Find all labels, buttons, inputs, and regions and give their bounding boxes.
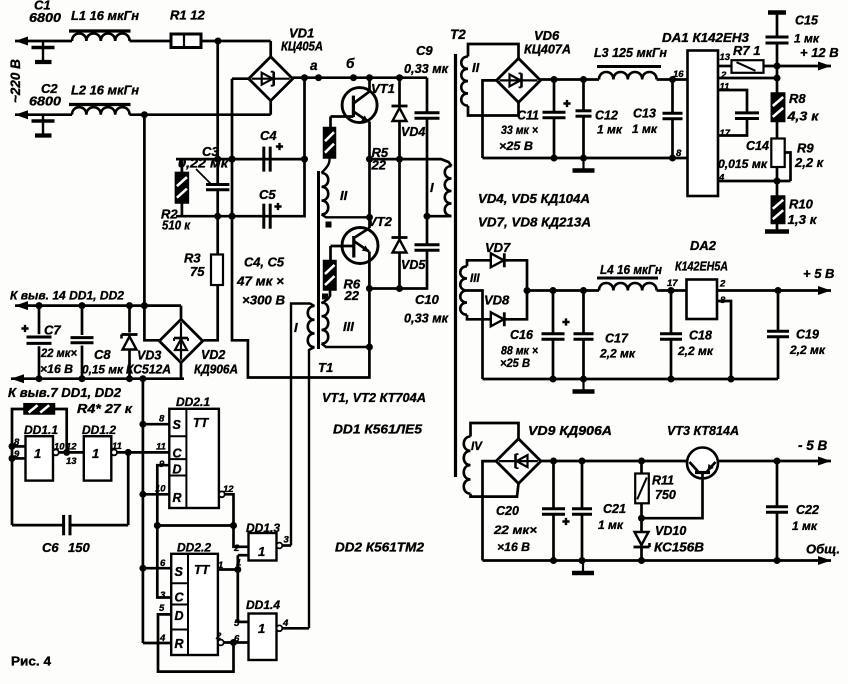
wire to VD1 top vertex xyxy=(269,41,272,57)
svg-text:12: 12 xyxy=(223,484,234,495)
svg-text:1 мк: 1 мк xyxy=(792,519,818,533)
wire rail K vyv.7 DD1 DD2 xyxy=(11,377,184,380)
svg-text:VD4: VD4 xyxy=(401,125,425,139)
wire T1 winding II bottom to VT trunk xyxy=(322,214,370,217)
svg-text:2,2 мк: 2,2 мк xyxy=(599,347,636,361)
wire L2 to VD1 bottom xyxy=(130,113,271,116)
junction C4 right xyxy=(301,156,308,163)
capacitor C9 0.33uF xyxy=(426,78,429,112)
T1 winding II xyxy=(322,173,329,214)
svg-text:VT1, VT2 КТ704А: VT1, VT2 КТ704А xyxy=(322,390,426,405)
node a xyxy=(315,74,322,81)
wire DD2.2 R pin4 xyxy=(143,642,171,645)
wire DD1.1 input pin9 xyxy=(12,457,26,460)
svg-text:22 мк×: 22 мк× xyxy=(40,346,77,360)
mains input arrow bottom ~220V line 2 xyxy=(15,110,28,119)
svg-text:VD3: VD3 xyxy=(137,349,161,363)
svg-text:C16: C16 xyxy=(510,328,534,342)
svg-text:33 мк ×: 33 мк × xyxy=(501,123,538,137)
capacitor C20 22uF electrolytic xyxy=(552,461,555,508)
junction VD4 VD5 xyxy=(396,156,403,163)
wire C9 bottom through rail crossing xyxy=(426,119,429,216)
wire DD1.2 out to DD2.1 C xyxy=(117,451,169,454)
svg-text:8: 8 xyxy=(676,148,682,159)
svg-text:1: 1 xyxy=(92,446,99,461)
svg-text:0,15 мк: 0,15 мк xyxy=(82,363,124,377)
wire -5V raw line xyxy=(541,460,688,463)
svg-text:17: 17 xyxy=(720,128,731,139)
ground chassis below C12 xyxy=(582,158,584,169)
diode VD8 КД213А xyxy=(491,312,504,326)
svg-text:2,2 мк: 2,2 мк xyxy=(677,344,714,358)
svg-text:- 5 В: - 5 В xyxy=(798,438,828,453)
svg-text:C7: C7 xyxy=(44,323,61,338)
supply rail arrow K vyv.14 xyxy=(15,301,28,310)
svg-text:22 мк×: 22 мк× xyxy=(493,523,537,537)
svg-text:5: 5 xyxy=(234,618,240,629)
svg-text:3: 3 xyxy=(160,590,166,601)
svg-text:0,015 мк: 0,015 мк xyxy=(718,157,768,171)
svg-text:КЦ405А: КЦ405А xyxy=(281,39,323,54)
wire VT1 emitter xyxy=(353,112,368,122)
svg-text:D: D xyxy=(175,609,184,623)
wire base to R5 xyxy=(329,117,332,128)
wire DD2.2 out pin1 xyxy=(218,568,238,571)
svg-text:C13: C13 xyxy=(633,107,656,121)
wire T1 winding I bottom to DD1.4 output xyxy=(309,347,315,628)
junction VT2 emitter bus xyxy=(366,344,373,351)
wire VD8 to plus node xyxy=(505,291,527,320)
voltage regulator DA2 К142ЕН5А xyxy=(687,280,718,320)
capacitor C7 22uF electrolytic xyxy=(38,306,41,379)
svg-text:R9: R9 xyxy=(797,141,814,156)
svg-text:2,2 мк: 2,2 мк xyxy=(789,343,826,357)
T2 winding I xyxy=(445,166,452,216)
transistor VT3 КТ814А xyxy=(687,448,718,479)
svg-text:C: C xyxy=(175,591,185,605)
svg-text:VT2: VT2 xyxy=(368,214,393,229)
svg-text:C22: C22 xyxy=(796,503,819,517)
svg-text:10: 10 xyxy=(54,442,65,453)
wire +12V line xyxy=(764,65,832,68)
wire +5 raw line xyxy=(527,289,599,292)
svg-text:C9: C9 xyxy=(416,43,433,58)
capacitor C18 2.2uF xyxy=(670,291,673,333)
capacitor C16 88uF electrolytic xyxy=(552,291,555,333)
capacitor C4 47uF xyxy=(262,147,265,172)
svg-text:S: S xyxy=(175,565,184,579)
wire DD2.2 S pin6 xyxy=(143,567,171,570)
svg-text:DD2.1: DD2.1 xyxy=(176,395,210,409)
wire T1 winding I top to DD1.3 output xyxy=(291,304,315,546)
svg-text:КД906А: КД906А xyxy=(194,363,238,377)
inductor L2 xyxy=(72,107,130,115)
zener VD3 КС512А xyxy=(128,306,131,333)
wire VT2 base xyxy=(331,245,354,248)
wire DD2.2 D pin5 feedback xyxy=(158,614,234,671)
svg-text:8: 8 xyxy=(14,437,20,448)
wire R4 right to DD1.1 output node xyxy=(55,409,67,452)
wire VT2 emitter down xyxy=(368,252,371,348)
svg-text:L2 16 мкГн: L2 16 мкГн xyxy=(71,83,139,98)
svg-text:1: 1 xyxy=(34,446,41,461)
wire DD2.1 D pin9 xyxy=(157,465,171,597)
svg-text:C5: C5 xyxy=(259,187,276,202)
svg-text:2: 2 xyxy=(719,279,726,290)
ground chassis below C21 xyxy=(582,561,584,572)
-5V output arrow xyxy=(818,457,831,466)
wire T2 winding III bottom to VD8 xyxy=(467,315,491,320)
wire R4 left to DD1.1 inputs and C6 xyxy=(12,409,24,525)
svg-text:III: III xyxy=(343,319,354,334)
svg-text:VT3 КТ814А: VT3 КТ814А xyxy=(667,423,739,438)
transformer T1 core xyxy=(317,171,320,349)
svg-text:R7 1: R7 1 xyxy=(733,43,760,58)
common output arrow xyxy=(818,556,831,565)
wire mid rail to T2 winding I top xyxy=(370,159,452,166)
svg-text:3: 3 xyxy=(284,535,290,546)
resistor R4 27k adjustable xyxy=(24,404,55,414)
svg-text:C15: C15 xyxy=(795,14,819,28)
svg-text:6800: 6800 xyxy=(29,10,62,25)
svg-text:×300 В: ×300 В xyxy=(242,293,285,308)
svg-text:47 мк ×: 47 мк × xyxy=(236,274,284,289)
svg-text:1: 1 xyxy=(236,558,241,569)
junction half-bridge mid rail xyxy=(366,156,373,163)
capacitor C22 1uF xyxy=(776,461,779,506)
svg-text:КС156В: КС156В xyxy=(654,541,704,555)
wire VT2 emitter diag xyxy=(354,241,369,252)
svg-text:VD9 КД906А: VD9 КД906А xyxy=(528,423,612,438)
diode VD4 КД104А xyxy=(398,78,401,106)
ground chassis below C17 xyxy=(582,379,584,390)
junction R11 VD10 VT3 base xyxy=(638,515,645,522)
svg-text:DD1.3: DD1.3 xyxy=(246,521,280,535)
transistor VT2 КТ704А xyxy=(342,228,378,264)
svg-text:1 мк: 1 мк xyxy=(794,32,820,46)
svg-text:TT: TT xyxy=(194,563,211,577)
svg-text:×25 В: ×25 В xyxy=(499,139,533,153)
resistor R7 1 xyxy=(718,65,732,68)
svg-text:К выв.7 DD1, DD2: К выв.7 DD1, DD2 xyxy=(8,386,121,400)
junction minus bus rail A xyxy=(229,156,236,163)
junction minus bus rail B xyxy=(229,213,236,220)
svg-text:22: 22 xyxy=(344,288,360,303)
node junction after R1 xyxy=(215,38,222,45)
svg-text:8: 8 xyxy=(159,414,165,425)
svg-text:C6: C6 xyxy=(42,540,59,555)
resistor R6 22 xyxy=(324,261,337,291)
resistor R10 1.3k xyxy=(771,196,784,224)
wire R1 to VD1 top xyxy=(201,40,271,43)
T2 winding II xyxy=(461,57,468,106)
+12V output arrow xyxy=(818,62,831,71)
svg-text:150: 150 xyxy=(68,540,90,555)
svg-text:~220 В: ~220 В xyxy=(8,59,23,103)
resistor R3 75 xyxy=(211,255,223,286)
svg-text:13: 13 xyxy=(720,52,731,63)
resistor R5 22 xyxy=(324,128,336,159)
capacitor C8 0.15uF xyxy=(81,306,84,379)
wire VT2 collector diag xyxy=(354,228,370,238)
svg-text:II: II xyxy=(340,188,348,203)
wire VT1 emitter to rail xyxy=(368,122,371,160)
svg-text:2,2 к: 2,2 к xyxy=(794,155,825,170)
bridge rectifier VD1 КЦ405А xyxy=(249,57,293,101)
wire trunk VT1e-VT2c xyxy=(368,159,371,228)
svg-text:0,22 мк: 0,22 мк xyxy=(178,156,230,171)
svg-text:VD7, VD8 КД213А: VD7, VD8 КД213А xyxy=(478,215,591,230)
svg-text:VT1: VT1 xyxy=(371,81,395,96)
svg-text:DD2.2: DD2.2 xyxy=(177,541,211,555)
svg-text:Общ.: Общ. xyxy=(806,542,840,557)
svg-text:DA2: DA2 xyxy=(690,238,717,253)
wire minus rail to DA1 pin8 xyxy=(483,157,688,160)
capacitor C17 2.2uF xyxy=(582,291,585,333)
svg-text:DD1.2: DD1.2 xyxy=(82,423,116,437)
flip-flop DD2.1 xyxy=(169,409,219,508)
voltage regulator DA1 К142ЕН3 xyxy=(688,51,719,197)
junction VD5 C10 rail xyxy=(366,285,373,292)
capacitor C11 33uF electrolytic xyxy=(553,80,556,112)
svg-text:0,33 мк: 0,33 мк xyxy=(404,62,449,76)
wire DD2.1 out pin12 xyxy=(219,491,225,497)
transistor VT1 КТ704А xyxy=(342,88,377,123)
svg-text:S: S xyxy=(173,418,182,432)
wire rail B xyxy=(176,215,304,218)
svg-text:2: 2 xyxy=(233,543,240,554)
wire mains line 1 xyxy=(15,40,72,43)
+5V output arrow xyxy=(818,286,831,295)
svg-text:12: 12 xyxy=(66,442,77,453)
svg-text:1 мк: 1 мк xyxy=(632,122,658,136)
svg-text:C17: C17 xyxy=(605,332,629,346)
wire T2 winding I bottom xyxy=(427,215,452,218)
T2 winding IV xyxy=(464,437,471,494)
junction neutral rail1 xyxy=(141,302,148,309)
svg-text:L1 16 мкГн: L1 16 мкГн xyxy=(71,8,139,23)
wire VD9 left vertex to 0V rail bottom xyxy=(483,461,497,560)
wire node b line VD1 plus output xyxy=(292,76,427,79)
wire DD1.1 input pin8 xyxy=(12,445,26,448)
svg-text:6800: 6800 xyxy=(29,94,62,109)
resistor R1 xyxy=(171,34,201,48)
svg-text:6: 6 xyxy=(160,558,166,569)
svg-text:1: 1 xyxy=(258,544,265,559)
svg-text:VD10: VD10 xyxy=(655,524,686,538)
wire VD1 left vertex xyxy=(232,77,249,80)
node b xyxy=(350,74,357,81)
wire L1 to R1 xyxy=(130,40,172,43)
wire T2 winding IV bottom to VD9 xyxy=(471,484,519,497)
svg-text:VD4, VD5 КД104А: VD4, VD5 КД104А xyxy=(478,191,590,206)
wire rail A xyxy=(176,158,305,161)
resistor R2 510k xyxy=(175,172,188,203)
junction VD7 VD8 output xyxy=(524,287,531,294)
wire VD7 to plus node xyxy=(505,260,527,290)
wire VD6 plus output xyxy=(541,78,600,81)
wire DD2.2 out pin2 xyxy=(218,640,224,646)
diode VD5 КД104А xyxy=(398,159,401,237)
transformer T2 core xyxy=(454,54,457,477)
capacitor C6 150 xyxy=(12,524,64,527)
svg-text:C: C xyxy=(173,447,183,461)
wire T1 winding III bottom xyxy=(322,344,370,347)
wire T2 winding III center tap to 0V rail xyxy=(467,291,483,380)
junction rail A C3 xyxy=(214,156,221,163)
svg-text:9: 9 xyxy=(14,449,20,460)
wire rail K vyv.14 DD1 DD2 xyxy=(15,304,181,307)
svg-text:4: 4 xyxy=(159,633,166,644)
svg-text:1 мк: 1 мк xyxy=(598,518,624,532)
wire feedback to C6 xyxy=(127,452,130,525)
flip-flop DD2.2 xyxy=(171,554,218,655)
svg-text:L4 16 мкГн: L4 16 мкГн xyxy=(600,262,662,277)
wire VD6 left vertex to minus rail xyxy=(483,80,497,158)
svg-text:C8: C8 xyxy=(94,347,111,362)
junction C4C5 tap xyxy=(301,74,308,81)
junction C9 C10 T2 winding I bottom xyxy=(424,213,431,220)
svg-text:D: D xyxy=(173,463,182,477)
wire C14 to DA1 pin17 xyxy=(718,120,747,136)
wire VT1 base xyxy=(331,115,354,118)
svg-text:a: a xyxy=(310,58,318,73)
svg-text:R11: R11 xyxy=(652,474,674,488)
wire DA1 pin11 to C14 xyxy=(718,90,747,112)
wire minus bus staircase xyxy=(232,79,369,378)
wire DD2.1 S pin8 xyxy=(143,423,169,426)
svg-text:II: II xyxy=(472,60,480,75)
wire DA1 pin4 xyxy=(718,180,791,183)
junction T1 winding II bottom xyxy=(366,214,373,221)
svg-text:17: 17 xyxy=(667,278,678,289)
svg-text:I: I xyxy=(430,180,434,195)
wire 0V rail middle xyxy=(483,378,779,381)
svg-text:T2: T2 xyxy=(450,27,466,42)
svg-text:C11: C11 xyxy=(517,109,539,123)
svg-text:×16 В: ×16 В xyxy=(497,540,530,554)
capacitor C3 0.22uF xyxy=(216,159,219,184)
wire DD1.4 output xyxy=(282,627,309,630)
wire R3 to VD2 right vertex xyxy=(204,285,218,340)
svg-text:L3 125 мкГн: L3 125 мкГн xyxy=(594,45,667,60)
svg-text:1,3 к: 1,3 к xyxy=(788,212,818,227)
svg-text:16: 16 xyxy=(673,69,684,80)
svg-text:VD7: VD7 xyxy=(485,240,511,255)
svg-text:C19: C19 xyxy=(796,328,819,342)
svg-text:T1: T1 xyxy=(318,360,333,375)
svg-text:4,3 к: 4,3 к xyxy=(786,109,820,124)
capacitor C2 feedthrough xyxy=(42,115,44,134)
common drop to DD S R pins xyxy=(142,379,145,643)
wire 0V common rail bottom xyxy=(483,559,832,562)
svg-text:+ 12 В: + 12 В xyxy=(800,45,839,60)
wire VT1 collector xyxy=(353,78,369,104)
wire +5V output xyxy=(717,289,831,292)
svg-text:C18: C18 xyxy=(689,329,712,343)
svg-text:DD1.1: DD1.1 xyxy=(24,423,58,437)
svg-text:C10: C10 xyxy=(415,292,440,307)
svg-text:R: R xyxy=(173,491,182,505)
svg-text:R: R xyxy=(175,637,184,651)
bridge rectifier VD2 КД906А xyxy=(159,319,202,362)
capacitor C15 1uF xyxy=(768,10,786,15)
svg-text:VD8: VD8 xyxy=(484,293,510,308)
wire to R8 xyxy=(776,66,779,93)
svg-text:C4, C5: C4, C5 xyxy=(244,255,285,270)
svg-text:DD2 К561ТМ2: DD2 К561ТМ2 xyxy=(335,540,425,555)
wire DD1.3 output xyxy=(282,544,291,547)
wire DA1 pin2 xyxy=(718,77,777,80)
svg-text:1: 1 xyxy=(218,560,223,571)
bridge rectifier VD6 КЦ407А xyxy=(497,58,541,102)
svg-text:К выв. 14 DD1, DD2: К выв. 14 DD1, DD2 xyxy=(10,289,124,303)
inductor L4 16uH xyxy=(599,283,657,291)
wire DA2 pin8 to 0V rail xyxy=(717,301,731,379)
logic gate DD1.1 xyxy=(26,436,54,480)
logic gate DD1.4 xyxy=(249,614,277,661)
wire VD1 bottom vertex to mains line 2 xyxy=(269,100,272,114)
svg-text:510 к: 510 к xyxy=(162,218,191,233)
wire VD2 bottom vertex to rail2 xyxy=(180,363,183,379)
svg-text:C20: C20 xyxy=(496,504,519,518)
wire -5V output line xyxy=(717,460,831,463)
capacitor C19 2.2uF xyxy=(777,291,780,331)
capacitor C1 feedthrough xyxy=(42,41,44,60)
capacitor C21 1uF xyxy=(581,461,584,508)
svg-text:IV: IV xyxy=(471,441,483,453)
inductor L1 xyxy=(72,34,130,42)
logic gate DD1.2 xyxy=(84,436,112,480)
svg-text:11: 11 xyxy=(112,441,122,452)
svg-text:I: I xyxy=(294,320,298,335)
junction mains line2 to neutral drop xyxy=(141,111,148,118)
wire T2 winding II top to VD6 xyxy=(468,44,519,58)
svg-text:VD2: VD2 xyxy=(201,348,225,362)
svg-text:11: 11 xyxy=(156,442,166,453)
wire L3 to DA1 pin16 xyxy=(657,78,688,81)
svg-text:C21: C21 xyxy=(603,502,626,516)
capacitor C10 0.33uF xyxy=(426,216,429,244)
svg-text:III: III xyxy=(470,273,480,285)
ground below R10 xyxy=(776,224,779,230)
svg-text:13: 13 xyxy=(66,456,77,467)
T1 winding I xyxy=(308,306,315,347)
svg-text:б: б xyxy=(346,56,355,71)
svg-text:6: 6 xyxy=(234,634,240,645)
svg-text:C4: C4 xyxy=(260,128,277,143)
wire VT3 base to R11 VD10 xyxy=(642,473,703,519)
wire VT3 collector diag xyxy=(690,462,699,472)
wire VD2 top vertex to rail1 xyxy=(180,306,183,320)
wire Q-bar to D feedback DD2.1 xyxy=(157,524,233,527)
T2 winding III xyxy=(460,266,467,314)
svg-text:DD1.4: DD1.4 xyxy=(246,598,280,612)
wire C10 bottom rail xyxy=(369,251,427,289)
wire DD1.1 out to DD1.2 in xyxy=(59,451,84,454)
T1 winding III xyxy=(322,303,329,344)
phase dot T1 winding III xyxy=(322,294,328,300)
wire T2 winding II bottom to VD6 xyxy=(468,102,519,115)
svg-text:R10: R10 xyxy=(789,197,814,212)
svg-text:Рис. 4: Рис. 4 xyxy=(11,654,52,669)
bridge rectifier VD9 КД906А xyxy=(496,439,541,484)
mains input arrow top ~220V line 1 xyxy=(15,37,28,46)
diode VD7 КД213А xyxy=(491,253,504,267)
svg-text:+ 5 В: + 5 В xyxy=(803,266,834,281)
wire base to R6 xyxy=(329,246,332,261)
inductor L3 125uH xyxy=(599,72,657,80)
